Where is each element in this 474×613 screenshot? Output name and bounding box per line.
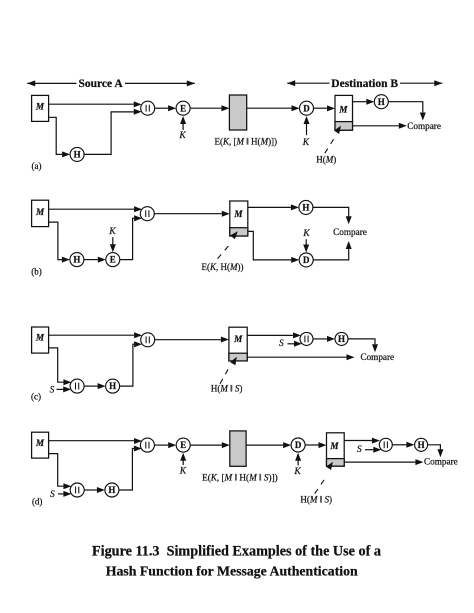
wire E to cipher block (a): [190, 107, 221, 109]
cipher block (a): [229, 95, 246, 130]
wire D to M dest (d): [305, 444, 318, 446]
svg-text:M: M: [35, 438, 45, 448]
wire concat to M dest (b): [154, 213, 222, 215]
wire concat2 to H (d): [84, 489, 97, 491]
svg-text:(b): (b): [31, 267, 42, 277]
block M source (c): [32, 327, 49, 353]
wire hash section to compare (d): [344, 461, 415, 463]
svg-text:S: S: [50, 490, 55, 500]
key K into E (a): [182, 118, 184, 130]
concat circle 3 (c): [300, 332, 313, 345]
svg-text:K: K: [179, 467, 187, 477]
key K into E (d): [182, 454, 184, 465]
svg-text:E(K, [M ‖ H(M)]): E(K, [M ‖ H(M)]): [215, 136, 278, 146]
svg-text:H: H: [418, 440, 425, 450]
key K into D (a): [306, 118, 308, 136]
callout dashed H(M) (a): [325, 134, 337, 153]
wire H down to compare (a): [388, 102, 423, 113]
wire concat2 to H (c): [84, 385, 98, 387]
wire H up to concat (a): [84, 112, 134, 154]
svg-text:M: M: [329, 441, 339, 451]
wire E up to concat (b): [120, 218, 134, 259]
svg-text:(a): (a): [32, 161, 42, 171]
svg-text:Destination B: Destination B: [331, 78, 398, 90]
hash H (a): [70, 147, 84, 161]
wire M down to H (a): [49, 117, 63, 154]
Destination B span arrow: [287, 80, 295, 86]
svg-text:E: E: [180, 103, 186, 113]
svg-text:S: S: [357, 445, 362, 455]
wire M to H dest (b): [248, 206, 291, 208]
decrypt D (a): [300, 101, 314, 115]
hash H dest (d): [415, 438, 428, 451]
hash section gray (c): [229, 353, 247, 361]
wire D to M dest (a): [314, 107, 327, 109]
block M source (a): [32, 95, 49, 121]
hash H dest (a): [374, 95, 388, 109]
svg-text:D: D: [303, 103, 310, 113]
svg-text:K: K: [302, 229, 310, 239]
svg-text:Source A: Source A: [78, 78, 123, 90]
wire M down to H (b): [49, 222, 62, 260]
wire M to H dest (a): [353, 101, 367, 103]
wire M to concat top (c): [49, 334, 134, 336]
hash H dest (c): [335, 332, 348, 345]
hash H (c): [106, 379, 120, 393]
svg-text:H(M): H(M): [316, 154, 336, 164]
wire concat to E (d): [154, 444, 168, 446]
wire hash section to compare (c): [247, 356, 346, 358]
svg-text:M: M: [35, 207, 45, 217]
hash H (b): [70, 253, 84, 267]
svg-text:K: K: [302, 138, 310, 148]
wire M down to concat2 (c): [49, 348, 64, 382]
svg-text:H(M ‖ S): H(M ‖ S): [300, 494, 332, 504]
block M source (d): [32, 432, 49, 458]
svg-text:K: K: [178, 131, 186, 141]
svg-text:H: H: [302, 203, 309, 213]
hash section gray (b): [230, 228, 248, 236]
svg-text:Figure 11.3 Simplified Exampl: Figure 11.3 Simplified Examples of the U…: [92, 543, 381, 559]
svg-text:H: H: [73, 255, 80, 265]
wire concat3 to H dest (c): [313, 338, 327, 340]
concat circle 1 (d): [140, 438, 154, 452]
svg-text:H: H: [109, 381, 116, 391]
wire M to concat top (a): [49, 103, 134, 105]
svg-text:H: H: [74, 150, 81, 160]
callout dashed H(M||S) (c): [220, 367, 230, 384]
svg-text:(c): (c): [31, 392, 41, 402]
svg-text:E(K, H(M)): E(K, H(M)): [201, 262, 243, 272]
wire cipher to D (a): [247, 107, 292, 109]
block M dest (c): [229, 327, 247, 361]
callout dashed H(M||S) (d): [315, 476, 327, 493]
wire M down to concat2 (d): [49, 454, 64, 487]
wire concat to M dest (c): [155, 339, 221, 341]
svg-text:K: K: [293, 467, 301, 477]
block M dest (d): [327, 433, 345, 466]
wire H down to compare (b): [313, 207, 349, 216]
wire H down to compare (c): [348, 339, 375, 344]
wire H up to concat (c): [120, 344, 134, 386]
decrypt D (b): [299, 253, 313, 267]
hash section gray (a): [335, 122, 353, 131]
wire M to concat top (d): [49, 440, 134, 442]
block M dest (a): [335, 95, 353, 130]
svg-text:E: E: [180, 440, 186, 450]
hash H (d): [105, 483, 119, 497]
svg-text:Compare: Compare: [424, 457, 458, 467]
svg-text:Compare: Compare: [407, 121, 441, 131]
wire hash section to compare (a): [353, 125, 399, 127]
wire M to concat3 (c): [247, 334, 293, 336]
key K into D (d): [297, 454, 299, 465]
svg-text:H(M ‖ S): H(M ‖ S): [211, 384, 243, 394]
cipher block (d): [230, 431, 246, 466]
encrypt E (d): [176, 438, 190, 452]
svg-text:S: S: [279, 339, 284, 349]
concat circle 2 (d): [70, 483, 84, 497]
wire hash section to D (b): [248, 231, 291, 260]
svg-text:M: M: [35, 332, 45, 342]
hash H dest (b): [299, 200, 313, 214]
svg-text:Hash Function for Message Auth: Hash Function for Message Authentication: [106, 564, 358, 579]
concat circle 3 (d): [379, 438, 392, 451]
concat circle 2 (c): [70, 379, 84, 393]
block M source (b): [32, 200, 49, 226]
svg-text:M: M: [233, 334, 243, 344]
wire E to cipher block (d): [190, 444, 222, 446]
wire M to concat3 (d): [344, 440, 372, 442]
wire M to concat (b): [49, 208, 134, 210]
svg-text:E: E: [110, 255, 116, 265]
svg-text:D: D: [303, 255, 310, 265]
encrypt E (a): [176, 101, 190, 115]
svg-text:H: H: [338, 334, 345, 344]
wire H up to concat (d): [119, 449, 134, 491]
concat circle 1 (c): [141, 333, 155, 347]
wire concat to E (a): [155, 107, 168, 109]
svg-text:D: D: [295, 440, 302, 450]
wire H to E (b): [84, 259, 98, 261]
svg-text:M: M: [35, 101, 45, 111]
wire cipher to D (d): [246, 444, 283, 446]
Source A span arrow: [27, 80, 35, 86]
svg-text:(d): (d): [32, 496, 43, 506]
block M dest (b): [230, 201, 248, 236]
svg-text:M: M: [338, 105, 348, 115]
wire concat3 to H dest (d): [392, 444, 406, 446]
concat circle (a): [141, 101, 155, 115]
svg-text:M: M: [233, 209, 243, 219]
svg-text:Compare: Compare: [360, 352, 394, 362]
callout dashed E(K,H(M)) (b): [218, 243, 231, 259]
decrypt D (d): [291, 438, 305, 452]
svg-text:E(K, [M ‖ H(M ‖ S)]): E(K, [M ‖ H(M ‖ S)]): [202, 472, 278, 482]
wire H down to compare (d): [428, 445, 441, 449]
svg-text:Compare: Compare: [333, 227, 367, 237]
svg-text:S: S: [50, 385, 55, 395]
svg-text:K: K: [108, 227, 116, 237]
svg-text:H: H: [378, 97, 385, 107]
concat circle (b): [140, 207, 154, 221]
hash section gray (d): [327, 459, 345, 467]
encrypt E (b): [106, 253, 120, 267]
svg-text:H: H: [108, 485, 115, 495]
wire D up to compare (b): [313, 249, 349, 260]
